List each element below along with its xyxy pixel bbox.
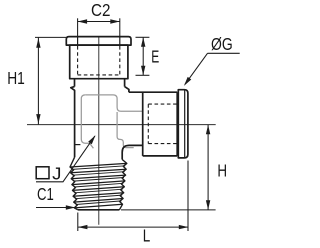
svg-text:J: J	[52, 163, 61, 183]
svg-text:C1: C1	[37, 184, 54, 204]
svg-text:ØG: ØG	[211, 34, 233, 54]
svg-text:H: H	[217, 160, 227, 180]
svg-text:H1: H1	[7, 68, 25, 88]
svg-text:E: E	[151, 46, 159, 66]
svg-text:C2: C2	[91, 0, 110, 20]
svg-text:L: L	[143, 226, 151, 246]
